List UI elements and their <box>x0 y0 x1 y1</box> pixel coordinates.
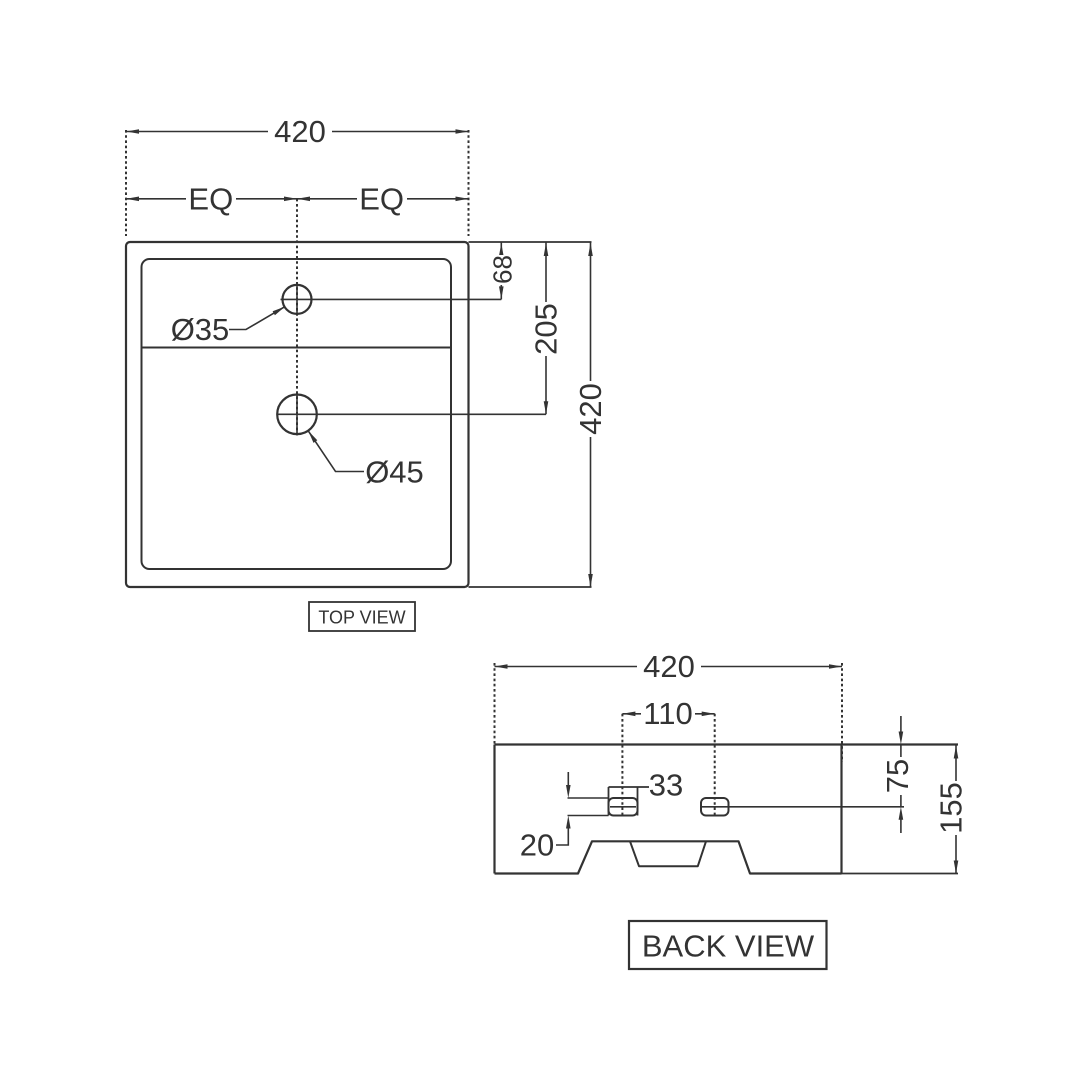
back body top edge (extends to right dims) <box>495 743 959 745</box>
left hole 33-bracket right vertical <box>637 787 639 816</box>
dim 68: bottom arrow <box>499 286 504 299</box>
back body left edge <box>493 745 495 874</box>
svg-text:EQ: EQ <box>188 181 233 216</box>
dim 33: top line to label <box>609 786 650 788</box>
dim 20: upper arrow tail <box>567 772 569 786</box>
basin outer rim (top view) <box>126 242 469 587</box>
dim 205: top arrow <box>544 243 549 256</box>
faucet hole circle (D35) <box>283 285 312 314</box>
leader D45: arrowhead at circle <box>308 431 317 443</box>
D35 crosshair vertical <box>296 284 298 316</box>
left hole center horizontal <box>610 806 636 808</box>
BACK VIEW label box <box>629 921 827 969</box>
dim 68: top arrow <box>499 243 504 256</box>
drain hole circle (D45) <box>277 395 317 435</box>
text 75 (rotated) <box>885 757 911 795</box>
text 205 (rotated) <box>533 302 559 356</box>
dim 420 right: dimension line <box>590 242 592 587</box>
dim 110: left arrow <box>622 712 635 717</box>
dim 110: dimension line <box>622 713 714 715</box>
dim 205: bottom arrow <box>544 401 549 414</box>
svg-text:420: 420 <box>643 649 695 684</box>
text 420 top <box>268 117 332 145</box>
text 110 <box>641 700 695 727</box>
left hole top tangent extended <box>568 797 609 799</box>
bottom edge extension to 155 dim <box>842 873 959 875</box>
bottom edge extension to right dims <box>469 586 592 588</box>
left fixing hole (rounded rect) <box>609 798 638 816</box>
vertical centerline (dashed) <box>296 199 298 435</box>
D35 crosshair horizontal / leader to 68 dim <box>281 298 502 300</box>
D45 crosshair horizontal / leader to 205 dim <box>277 413 547 415</box>
dim 420 back: extension left (dotted) <box>494 663 496 762</box>
dim EQ: center right-pointing arrow <box>284 197 297 202</box>
dim 420 back: extension right (dotted) <box>841 663 843 762</box>
bowl divider line <box>142 347 452 349</box>
left hole 33-bracket left vertical <box>608 787 610 816</box>
hole centerline left (dotted) <box>621 714 623 817</box>
leader D35: arrowhead at circle <box>273 307 285 316</box>
dim EQ: left arrow <box>126 197 139 202</box>
dim 68: dimension line <box>500 242 502 299</box>
dim 420 top: right arrow <box>456 129 469 134</box>
dim 420 right: top arrow <box>588 243 593 256</box>
svg-text:BACK VIEW: BACK VIEW <box>642 929 815 964</box>
svg-text:110: 110 <box>643 696 692 731</box>
dim 75: lower arrow <box>899 807 904 820</box>
top edge extension to right dims <box>469 241 592 243</box>
svg-text:155: 155 <box>934 782 969 834</box>
dim 420 top: extension line left (dotted) <box>125 130 127 236</box>
svg-text:Ø45: Ø45 <box>365 455 424 490</box>
dim 20: upper arrow <box>566 785 571 798</box>
svg-text:20: 20 <box>520 828 554 863</box>
dim EQ: dimension line <box>126 198 469 200</box>
central trapezoid recess <box>630 841 706 866</box>
right hole center horizontal to 75 dim <box>701 806 904 808</box>
text EQ left <box>186 186 236 212</box>
dim 420 top: dimension line <box>126 131 469 133</box>
dim 75: lower arrow tail <box>900 819 902 833</box>
svg-text:EQ: EQ <box>359 181 404 216</box>
dim 420 top: left arrow <box>126 129 139 134</box>
back body bottom contour <box>495 841 842 873</box>
text 155 (rotated) <box>938 781 964 835</box>
basin inner bowl (rounded rect) <box>142 259 452 569</box>
right fixing hole (rounded rect) <box>701 798 729 816</box>
dim 75: dimension line between <box>900 745 902 807</box>
dim 420 back: left arrow <box>495 664 508 669</box>
svg-text:68: 68 <box>487 255 517 284</box>
dim EQ: right arrow <box>456 197 469 202</box>
svg-text:205: 205 <box>529 303 564 355</box>
text 420 back <box>637 652 701 680</box>
svg-text:33: 33 <box>649 768 683 803</box>
dim 155: dimension line <box>955 745 957 874</box>
svg-text:420: 420 <box>573 383 608 435</box>
dim 110: right arrow <box>702 712 715 717</box>
dim 420 top: extension line right (dotted) <box>468 130 470 236</box>
dim 205: dimension line <box>545 242 547 414</box>
dim 420 back: right arrow <box>829 664 842 669</box>
dim 420 back: dimension line <box>495 666 843 668</box>
dim 75: upper arrow <box>899 732 904 745</box>
dim 75: upper arrow tail <box>900 716 902 732</box>
dim 155: top arrow <box>954 746 959 759</box>
text 68 (rotated) <box>491 255 513 285</box>
hole centerline right (dotted) <box>714 714 716 817</box>
dim 155: bottom arrow <box>954 861 959 874</box>
dim 420 right: bottom arrow <box>588 574 593 587</box>
svg-text:TOP VIEW: TOP VIEW <box>318 608 405 628</box>
text 420 right (rotated) <box>578 381 604 437</box>
svg-text:Ø35: Ø35 <box>171 312 230 347</box>
TOP VIEW label box <box>309 602 415 631</box>
leader D45: polyline from circle to label <box>308 431 364 472</box>
svg-text:420: 420 <box>274 114 326 149</box>
text EQ right <box>357 186 407 212</box>
dim 20: lower arrow tail + elbow to label <box>556 827 568 845</box>
left hole bottom tangent extended <box>568 815 609 817</box>
back body right edge <box>840 745 842 874</box>
dim EQ: center left-pointing arrow <box>297 197 310 202</box>
dim 20: lower arrow <box>566 816 571 829</box>
svg-text:75: 75 <box>880 759 915 793</box>
D45 crosshair vertical <box>296 393 298 436</box>
leader D35: polyline from label to circle <box>229 307 285 330</box>
